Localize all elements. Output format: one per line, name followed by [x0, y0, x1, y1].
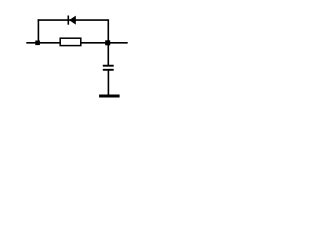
wire (top rail)	[38, 19, 109, 21]
wire (capacitor to ground)	[107, 70, 109, 96]
wire (left vertical branch)	[37, 19, 39, 43]
node (right junction)	[105, 40, 110, 45]
diode	[68, 16, 76, 25]
resistor	[60, 38, 81, 45]
ground	[99, 94, 120, 97]
wire (middle horizontal rail)	[26, 42, 127, 44]
capacitor	[103, 66, 114, 70]
wire (right vertical branch, top rail to capacitor)	[107, 19, 109, 65]
node (left junction)	[35, 41, 40, 46]
